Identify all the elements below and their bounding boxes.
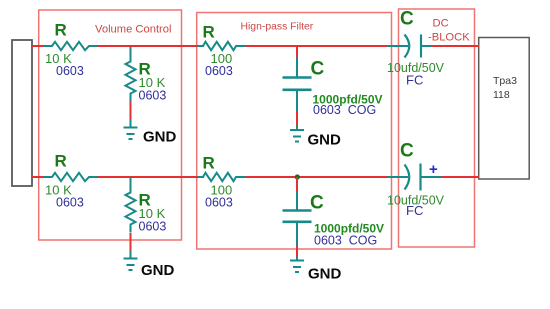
wire: R4 to R6 (bottom) <box>97 176 204 178</box>
svg-text:GND: GND <box>143 129 177 146</box>
capacitor C6 (10ufd DC block, bottom) : left lead <box>388 176 408 178</box>
resistor R2 (shunt 10K to GND, top) <box>126 47 136 102</box>
svg-text:C: C <box>310 193 324 214</box>
svg-text:GND: GND <box>308 132 342 149</box>
svg-text:+: + <box>429 161 438 178</box>
ground symbol (C1) <box>290 126 304 142</box>
resistor R1 (series 10K, top) <box>43 42 97 50</box>
capacitor C6 right lead <box>421 176 443 178</box>
resistor R6 (series 100, bottom) <box>198 173 247 181</box>
resistor R5 (shunt 10K to GND, bottom) <box>126 178 136 232</box>
wire: connector J1 to R1 (top) <box>31 45 44 47</box>
wire: connector J1 to R4 (bottom) <box>31 176 44 178</box>
svg-text:FC: FC <box>406 203 423 218</box>
capacitor C5 curved plate <box>405 35 410 58</box>
wire: R1 to R3 (top) <box>97 45 204 47</box>
svg-text:R: R <box>55 152 67 171</box>
capacitor C5 (10ufd DC block, top) : left lead <box>388 45 408 47</box>
svg-text:Volume Control: Volume Control <box>95 24 172 36</box>
svg-text:0603: 0603 <box>56 64 84 78</box>
svg-text:0603 COG: 0603 COG <box>313 103 376 117</box>
svg-text:118: 118 <box>493 89 510 101</box>
wire: C1 to ground <box>296 111 298 127</box>
svg-text:0603 COG: 0603 COG <box>314 234 377 248</box>
svg-text:R: R <box>55 21 67 40</box>
capacitor C6 straight plate <box>419 164 421 191</box>
wire: R6 to DC-block cap C6 (bottom) <box>246 176 389 178</box>
wire: C2 to ground <box>296 246 298 257</box>
svg-text:-BLOCK: -BLOCK <box>428 32 470 44</box>
capacitor C6 curved plate <box>405 165 410 190</box>
wire: C5 to U1 (top) <box>431 45 479 47</box>
wire: R5 to ground (bottom) <box>130 233 132 251</box>
svg-text:Tpa3: Tpa3 <box>493 75 517 87</box>
ground symbol (R5) <box>124 251 138 271</box>
High-pass Filter block box <box>197 13 392 250</box>
svg-text:C: C <box>400 141 414 162</box>
svg-text:0603: 0603 <box>205 196 233 210</box>
svg-text:C: C <box>311 59 325 80</box>
svg-text:0603: 0603 <box>139 220 167 234</box>
wire: R3 to DC-block cap C5 (top) <box>246 45 389 47</box>
DC-BLOCK block box <box>399 9 475 247</box>
TPA3118 amplifier block U1 <box>479 38 530 180</box>
svg-text:R: R <box>203 23 215 42</box>
svg-text:C: C <box>400 9 414 30</box>
capacitor C2 body <box>283 191 312 247</box>
Volume Control block box <box>39 10 182 240</box>
svg-text:Hign-pass Filter: Hign-pass Filter <box>241 22 314 33</box>
svg-text:FC: FC <box>406 73 423 88</box>
capacitor C2 (1000pfd shunt, bottom) : red stub <box>296 177 298 192</box>
wire: C6 to U1 (bottom) <box>442 176 479 178</box>
svg-text:GND: GND <box>308 266 342 283</box>
ground symbol (C2) <box>290 257 304 273</box>
resistor R4 (series 10K, bottom) <box>43 173 97 181</box>
svg-text:R: R <box>203 154 215 173</box>
resistor R3 (series 100, top) <box>198 42 247 50</box>
svg-text:0603: 0603 <box>205 64 233 78</box>
svg-text:0603: 0603 <box>139 89 167 103</box>
svg-text:GND: GND <box>141 262 175 279</box>
capacitor C5 straight plate <box>420 35 422 58</box>
wire: R2 to ground (top) <box>130 102 132 120</box>
input connector J1 <box>12 40 32 186</box>
svg-text:0603: 0603 <box>56 196 84 210</box>
svg-text:DC: DC <box>433 18 449 30</box>
junction node: R6 / C2 / C6 net <box>295 174 300 179</box>
capacitor C5 right lead <box>421 45 431 47</box>
ground symbol (R2) <box>124 119 138 139</box>
capacitor C1 body <box>283 57 312 112</box>
capacitor C1 (1000pfd shunt, top) : red stub <box>296 46 298 58</box>
